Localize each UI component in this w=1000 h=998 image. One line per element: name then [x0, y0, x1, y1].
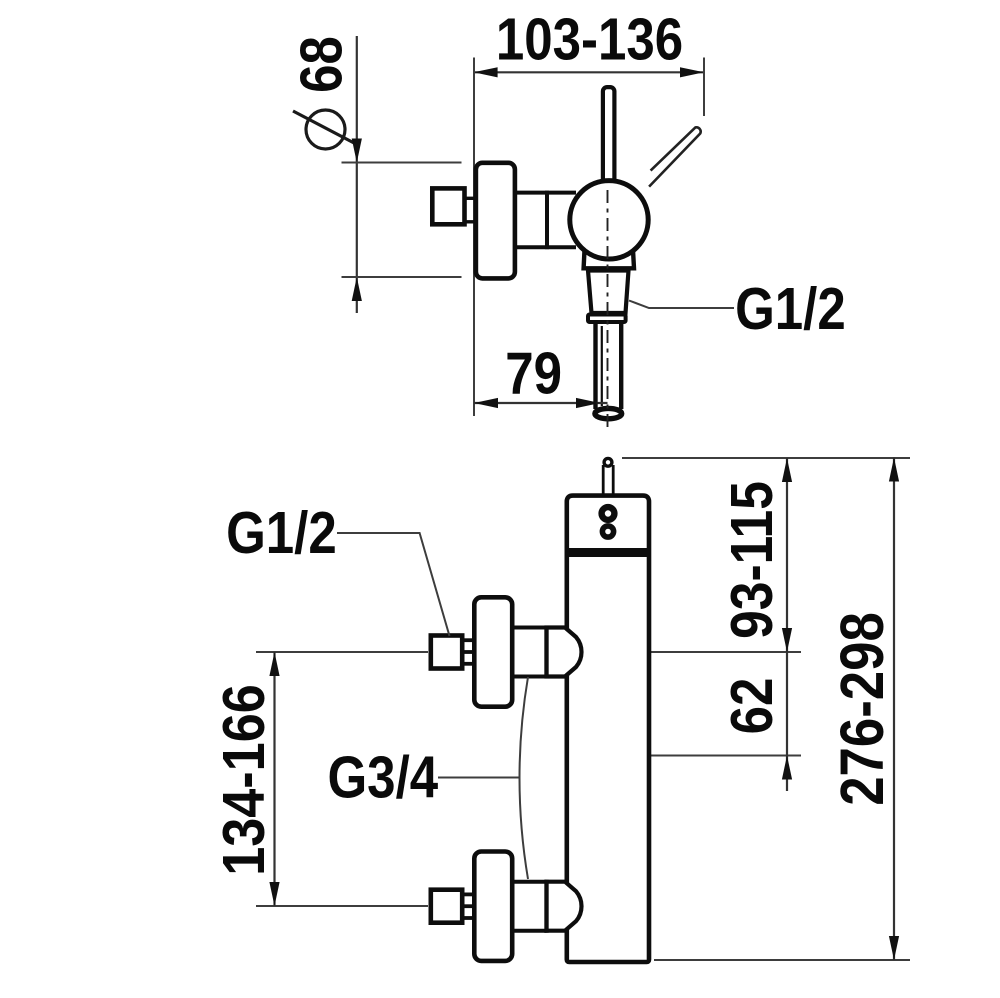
- upper connection: union nut: [431, 636, 462, 669]
- dimension line 93-115 and 62 (shared vertical): [786, 458, 788, 791]
- supply pipe sections between flange and valve (top view): [515, 191, 576, 250]
- svg-text:68: 68: [288, 36, 354, 93]
- wall flange / escutcheon (top view): [476, 163, 515, 279]
- centerline (dash-dot) of outlet axis: [607, 190, 609, 431]
- arrow down 93-115: [782, 628, 792, 652]
- valve body circle (top view): [570, 181, 648, 259]
- dimension text 276-298 (rotated): [828, 612, 896, 806]
- dimension text 68 (rotated): [288, 36, 354, 93]
- leader line G1/2 (top view): [629, 301, 734, 309]
- arrow down 134-166: [269, 882, 279, 906]
- tapered outlet cone (top view): [588, 271, 629, 314]
- upper connection: barrel: [512, 628, 547, 677]
- arrow down 68 (above top ext line): [352, 139, 362, 163]
- upper connection: dome base line: [544, 626, 548, 679]
- extension line 68 bottom (flange bottom edge): [342, 276, 462, 278]
- extension line left lower connection: [256, 905, 428, 907]
- extension line right (handle end): [703, 58, 705, 117]
- svg-text:276-298: 276-298: [828, 612, 896, 806]
- extension line 68 top (flange top edge): [342, 162, 462, 164]
- extension line upper connection centre (right side): [650, 651, 801, 653]
- dimension line 134-166: [273, 652, 275, 906]
- mixer body (front view): [567, 496, 649, 962]
- lower connection: union nut: [431, 890, 462, 923]
- dark band on body: [565, 548, 651, 557]
- leader line G1/2 (front view): [337, 533, 450, 636]
- label G3/4: [327, 744, 438, 810]
- svg-text:62: 62: [719, 678, 785, 735]
- diameter symbol of 68: [293, 110, 355, 149]
- union nut (top view): [432, 188, 464, 224]
- leader curve G3/4 joining both unions: [520, 677, 529, 879]
- extension line left upper connection: [256, 651, 428, 653]
- dimension text 134-166 (rotated): [211, 684, 277, 876]
- label G1/2 (front view): [226, 500, 337, 566]
- dimension line 68 (vertical): [356, 36, 358, 313]
- outlet pipe (top view): [595, 324, 622, 419]
- dimension line 276-298: [893, 458, 895, 961]
- arrow up 93-115: [782, 458, 792, 482]
- lower connection: barrel: [512, 882, 547, 931]
- handle stem (top view): [603, 87, 615, 187]
- lower connection: dome cap: [547, 882, 582, 931]
- outlet collar below valve (top view): [584, 250, 634, 268]
- vent pin on body top: [603, 458, 613, 497]
- svg-text:G1/2: G1/2: [735, 276, 846, 342]
- dimension text 62 (rotated): [719, 678, 785, 735]
- arrow down 276-298: [889, 936, 899, 960]
- svg-text:134-166: 134-166: [211, 684, 277, 876]
- label G1/2 (top view): [735, 276, 846, 342]
- dimension line 103-136: [474, 71, 704, 73]
- screw lower (front view): [602, 526, 613, 537]
- svg-text:G1/2: G1/2: [226, 500, 337, 566]
- svg-text:93-115: 93-115: [719, 481, 785, 639]
- leader line G3/4 horizontal: [438, 777, 520, 779]
- upper connection: dome cap: [547, 628, 582, 677]
- upper connection: thread hatch: [464, 640, 474, 664]
- dimension text 93-115 (rotated): [719, 481, 785, 639]
- extension line top (pin top): [622, 457, 910, 459]
- dimension text 103-136: [496, 6, 683, 72]
- thread hatch between nut and flange (top view): [465, 198, 476, 222]
- arrow left 79: [474, 398, 498, 408]
- extension line bottom (body bottom): [654, 959, 910, 961]
- svg-text:103-136: 103-136: [496, 6, 683, 72]
- svg-text:79: 79: [505, 340, 562, 406]
- svg-text:G3/4: G3/4: [327, 744, 438, 810]
- arrow up 68 (below bottom ext line): [352, 277, 362, 301]
- dimension line 79: [474, 402, 608, 404]
- arrow up 62 (below line, outside): [782, 756, 792, 780]
- handle lever raised position (top view, thin rod): [649, 127, 701, 186]
- lower connection: wall flange: [474, 852, 512, 961]
- extension line left (wall face): [473, 58, 475, 417]
- arrow right 103-136: [680, 67, 704, 77]
- arrow right 79: [576, 398, 600, 408]
- arrow up 134-166: [269, 652, 279, 676]
- outlet rim nut (top view): [588, 315, 626, 323]
- lower connection: dome base line: [544, 880, 548, 933]
- arrow left 103-136: [474, 67, 498, 77]
- lower connection: thread hatch: [464, 894, 474, 918]
- arrow up 276-298: [889, 458, 899, 482]
- dimension text 79: [505, 340, 562, 406]
- screw upper (front view): [602, 507, 615, 520]
- upper connection: wall flange: [474, 597, 512, 706]
- extension line outlet level (right side): [650, 755, 801, 757]
